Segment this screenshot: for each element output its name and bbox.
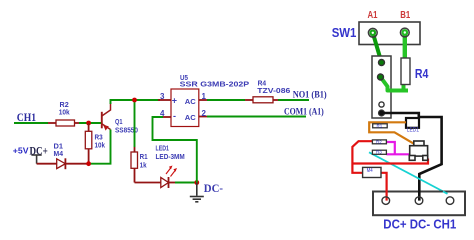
pad B1 (400, 28, 409, 37)
op-amp U5 SSR box (171, 75, 250, 127)
svg-text:R1: R1 (140, 154, 148, 161)
diode M4 footprint (363, 167, 381, 177)
svg-text:10k: 10k (59, 110, 70, 117)
trace B1 to R4 top (403, 33, 407, 60)
svg-text:3: 3 (160, 92, 165, 101)
wire collector net (111, 100, 161, 147)
svg-text:R3: R3 (95, 135, 103, 142)
wire to NO1 (278, 99, 309, 101)
connector DC terminal outline (373, 192, 465, 216)
svg-text:DC-: DC- (204, 181, 223, 195)
pin 4 (158, 116, 171, 118)
svg-text:LED1: LED1 (407, 127, 420, 133)
svg-text:10k: 10k (95, 143, 106, 150)
wire CH1 net (14, 122, 102, 124)
pin 2 (199, 116, 207, 118)
svg-text:M4: M4 (54, 151, 64, 158)
svg-text:NO1 (B1): NO1 (B1) (293, 89, 327, 99)
svg-text:LED-3MM: LED-3MM (156, 154, 185, 161)
wire pin1 to R4 (207, 99, 245, 101)
pin 1 (199, 99, 207, 101)
wire pin2 to COM1 (207, 116, 306, 118)
resistor R2 (48, 102, 79, 126)
svg-text:DC+ DC- CH1: DC+ DC- CH1 (383, 217, 456, 232)
pad DC- (415, 197, 423, 205)
svg-text:+: + (172, 96, 177, 106)
svg-text:SW1: SW1 (332, 25, 357, 40)
node base junction (86, 121, 91, 126)
svg-text:D1: D1 (54, 144, 64, 151)
svg-text:AC: AC (185, 99, 196, 106)
pad relay 2 (378, 74, 384, 80)
resistor R3 footprint (372, 150, 386, 154)
svg-text:R4: R4 (258, 80, 267, 87)
wire LED cathode to DC- (175, 182, 197, 184)
diode D1 (37, 144, 89, 170)
svg-text:SSR G3MB-202P: SSR G3MB-202P (180, 82, 250, 89)
trace orange R1/LED anode net (369, 122, 416, 145)
connector SW1 outline (359, 22, 420, 45)
trace cyan into CH1 pad (443, 191, 448, 193)
wire emitter net (89, 130, 111, 164)
svg-text:R3: R3 (376, 150, 382, 155)
resistor R4 footprint (401, 58, 410, 85)
trace magenta base net (386, 142, 410, 154)
svg-text:-: - (173, 111, 176, 121)
trace black relay pad4 to LED1 (382, 113, 419, 118)
pad relay 3 (379, 102, 384, 107)
trace A1 to relay pad1 (373, 33, 382, 63)
transistor Q1 footprint (409, 141, 427, 160)
trace red DC+ net (352, 141, 428, 200)
node +5V junction (86, 161, 91, 166)
svg-text:Q1: Q1 (115, 119, 123, 126)
LED arrows (166, 166, 177, 177)
pad DC+ (382, 197, 390, 205)
svg-text:M4: M4 (367, 168, 373, 174)
svg-text:COM1 (A1): COM1 (A1) (284, 106, 324, 116)
svg-text:B1: B1 (400, 10, 410, 21)
LED1 footprint (406, 118, 419, 128)
trace relay pad2 to R4 bottom (381, 77, 409, 91)
pin 3 (158, 99, 171, 101)
node DC- junction (194, 180, 199, 185)
svg-text:R2: R2 (60, 102, 69, 109)
pad A1 (368, 28, 377, 37)
trace black into DC- pad (418, 191, 421, 201)
LED LED1 (135, 145, 185, 188)
svg-text:A1: A1 (368, 10, 378, 21)
trace red into DC+ pad (386, 191, 388, 201)
svg-text:CH1: CH1 (17, 110, 36, 124)
power +5V terminal (31, 155, 41, 164)
svg-text:R1: R1 (377, 123, 383, 128)
svg-text:LED1: LED1 (156, 145, 169, 152)
svg-text:TZV-086: TZV-086 (257, 88, 290, 95)
pad relay 4 (379, 110, 385, 116)
resistor R4 (245, 80, 290, 103)
svg-text:2: 2 (202, 109, 207, 118)
svg-text:R4: R4 (415, 66, 429, 81)
relay footprint outline (372, 56, 391, 118)
svg-text:AC: AC (185, 115, 196, 122)
resistor R3 (85, 123, 105, 164)
wire pin4 to DC- (153, 117, 197, 183)
resistor R2 footprint (372, 140, 386, 144)
svg-text:+5V: +5V (13, 147, 29, 156)
ground (190, 183, 204, 202)
pad relay 1 (379, 60, 385, 66)
svg-text:1: 1 (202, 92, 207, 101)
svg-text:R2: R2 (376, 139, 382, 144)
node collector junction (132, 98, 137, 103)
transistor Q1 (102, 103, 111, 130)
trace R4 bottom stub (402, 82, 406, 91)
emitter arrow of Q1 (103, 125, 109, 131)
pad CH1 (446, 197, 454, 205)
trace black LED1 to DC- pad (418, 117, 441, 200)
svg-text:DC+: DC+ (30, 144, 48, 158)
resistor R1 (131, 147, 148, 183)
svg-text:1k: 1k (140, 162, 147, 169)
trace cyan CH1 net (369, 152, 447, 193)
resistor R1 footprint (373, 124, 388, 128)
